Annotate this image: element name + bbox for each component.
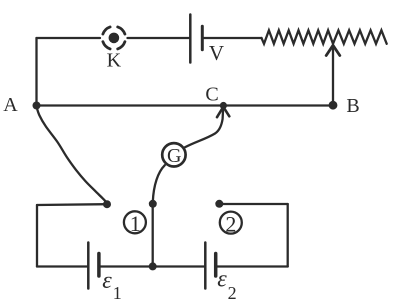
right loop right wire xyxy=(287,204,289,267)
wire e1 to center node xyxy=(100,265,153,267)
svg-text:B: B xyxy=(346,95,359,117)
jockey arrowhead xyxy=(217,107,229,117)
circled 1 xyxy=(124,211,146,233)
wire G to node junction xyxy=(153,165,165,202)
right loop bottom wire xyxy=(217,265,288,267)
svg-text:A: A xyxy=(3,94,18,116)
wire top segment 3 xyxy=(204,37,262,39)
cell e1 short plate xyxy=(97,254,101,277)
node C jockey dot xyxy=(220,102,227,109)
left loop left wire xyxy=(36,205,38,267)
wire curve A to left loop xyxy=(36,106,107,203)
svg-text:ε: ε xyxy=(217,267,227,293)
cell e2 long plate xyxy=(204,243,207,289)
wire vertical center xyxy=(152,204,154,266)
svg-text:ε: ε xyxy=(102,268,112,294)
svg-text:V: V xyxy=(209,41,224,65)
node junction below G xyxy=(149,200,157,208)
svg-text:K: K xyxy=(107,50,122,72)
rheostat zigzag xyxy=(262,30,387,44)
rheostat wiper arrow shaft xyxy=(332,47,334,105)
svg-text:2: 2 xyxy=(228,283,237,303)
svg-text:G: G xyxy=(167,145,181,167)
battery V plate short xyxy=(201,26,204,50)
wire top segment 2 xyxy=(128,37,190,39)
wire center node to e2 xyxy=(153,265,204,267)
jockey arrow curve from G to C xyxy=(185,109,224,148)
node right loop dot xyxy=(215,200,223,208)
cell e1 long plate xyxy=(87,243,90,289)
left loop top wire xyxy=(37,203,107,206)
cell e2 short plate xyxy=(214,254,218,277)
circled 2 xyxy=(220,212,242,234)
node bottom center xyxy=(149,262,157,270)
node A xyxy=(33,102,41,110)
svg-text:1: 1 xyxy=(113,283,122,303)
wire top segment 1 xyxy=(37,37,101,39)
svg-text:2: 2 xyxy=(225,211,236,236)
node left loop dot xyxy=(103,200,111,208)
svg-text:C: C xyxy=(205,84,218,106)
wire A-B xyxy=(37,104,334,106)
wire left vertical xyxy=(35,38,37,106)
right loop top wire xyxy=(219,203,287,205)
node B xyxy=(329,101,338,110)
key K xyxy=(103,27,125,49)
battery V plate long xyxy=(189,15,192,63)
galvanometer G circle xyxy=(162,143,185,166)
rheostat wiper arrowhead xyxy=(326,45,340,55)
svg-text:1: 1 xyxy=(130,211,141,236)
left loop bottom wire xyxy=(37,265,87,267)
